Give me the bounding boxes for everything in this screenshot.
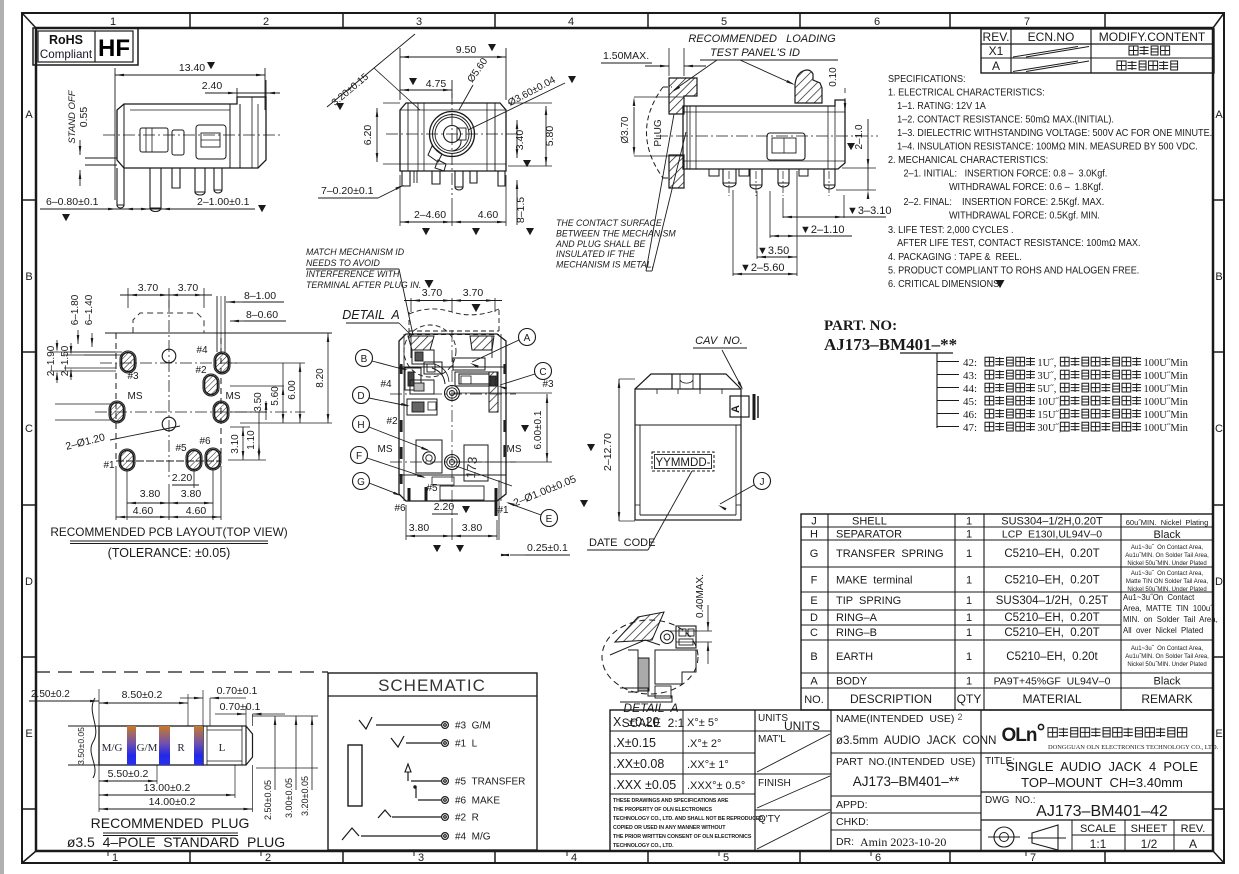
plug captions — [67, 815, 285, 850]
svg-text:Compliant: Compliant — [40, 48, 93, 61]
svg-text:B: B — [25, 271, 32, 283]
svg-text:3.80: 3.80 — [462, 522, 483, 534]
svg-text:Ø3.60±0.04: Ø3.60±0.04 — [506, 74, 558, 108]
loading view pins — [709, 169, 835, 196]
svg-text:RoHS: RoHS — [49, 33, 83, 47]
svg-text:COPIED OR USED IN ANY MANNER W: COPIED OR USED IN ANY MANNER WITHOUT — [613, 825, 726, 831]
svg-text:1–3. DIELECTRIC WITHSTANDING V: 1–3. DIELECTRIC WITHSTANDING VOLTAGE: 50… — [897, 128, 1212, 140]
svg-text:1: 1 — [966, 548, 972, 560]
bom materials — [994, 516, 1111, 707]
svg-text:H: H — [810, 529, 818, 541]
svg-text:44:: 44: — [963, 383, 977, 395]
svg-text:G/M: G/M — [137, 742, 158, 754]
pad #4 — [214, 352, 230, 374]
svg-text:0.55: 0.55 — [78, 107, 90, 128]
svg-text:SCALE: SCALE — [1080, 823, 1116, 835]
zone numbers bottom — [108, 851, 1036, 864]
svg-text:1/2: 1/2 — [1141, 837, 1158, 851]
svg-text:SUS304–1/2H,0.20T: SUS304–1/2H,0.20T — [1001, 516, 1103, 528]
part number heading — [824, 318, 957, 354]
dims 3-3.10 / 2-1.10 / 3.50 / 2-5.60 — [733, 171, 892, 276]
svg-text:6: 6 — [875, 852, 881, 864]
svg-text:3: 3 — [416, 16, 422, 28]
svg-text:2–1. INITIAL: INSERTION FORC: 2–1. INITIAL: INSERTION FORCE: 0.8 – 3.0… — [903, 168, 1107, 180]
view: front elevation (top-middle) — [400, 44, 506, 100]
test panel hatched section lower — [669, 155, 684, 188]
svg-text:X°± 5°: X°± 5° — [687, 717, 718, 729]
svg-text:A: A — [1189, 837, 1197, 851]
svg-text:#3: #3 — [127, 371, 139, 382]
svg-text:43:: 43: — [963, 370, 977, 382]
svg-text:FINISH: FINISH — [758, 778, 791, 789]
pcb dims 3.10 1.10 — [228, 412, 266, 460]
plug body — [68, 698, 253, 778]
plating option rows — [963, 357, 1189, 434]
svg-text:3.50: 3.50 — [253, 392, 264, 412]
svg-text:.XX±0.08: .XX±0.08 — [613, 757, 664, 771]
svg-text:#3 G/M: #3 G/M — [455, 721, 491, 732]
svg-text:#6: #6 — [394, 503, 406, 514]
pcb bottom dims — [116, 466, 221, 520]
name / part no / appd fields — [831, 712, 996, 849]
part number option branch lines — [937, 353, 959, 428]
svg-text:Ø3.70: Ø3.70 — [620, 116, 631, 144]
svg-text:WITHDRAWAL FORCE: 0.5Kgf. MIN.: WITHDRAWAL FORCE: 0.5Kgf. MIN. — [949, 210, 1100, 222]
svg-text:.X±0.15: .X±0.15 — [613, 736, 656, 750]
svg-text:Ø5.60: Ø5.60 — [466, 56, 491, 85]
svg-text:173: 173 — [463, 456, 480, 479]
svg-text:QTY: QTY — [957, 692, 982, 706]
svg-text:5: 5 — [723, 852, 729, 864]
svg-text:3.20±0.15: 3.20±0.15 — [330, 71, 371, 108]
svg-text:Area, MATTE TIN 100u˝: Area, MATTE TIN 100u˝ — [1123, 604, 1214, 613]
svg-text:6.00±0.1: 6.00±0.1 — [533, 410, 544, 449]
svg-text:1: 1 — [966, 651, 972, 663]
svg-text:AFTER LIFE TEST, CONTACT RESIS: AFTER LIFE TEST, CONTACT RESISTANCE: 100… — [897, 238, 1140, 250]
callout circle D — [353, 387, 411, 407]
svg-text:F: F — [356, 451, 362, 462]
svg-text:1–1. RATING: 12V 1A: 1–1. RATING: 12V 1A — [897, 101, 986, 113]
svg-text:C5210–EH, 0.20T: C5210–EH, 0.20T — [1004, 548, 1099, 560]
svg-text:Au1u˝MIN. On Solder Tail Area,: Au1u˝MIN. On Solder Tail Area, — [1125, 654, 1209, 660]
svg-text:DETAIL A: DETAIL A — [623, 701, 678, 715]
svg-text:A: A — [25, 109, 33, 121]
label CAV NO. — [693, 335, 747, 390]
svg-text:6–0.80±0.1: 6–0.80±0.1 — [46, 196, 99, 208]
svg-text:LCP E130I,UL94V–0: LCP E130I,UL94V–0 — [1002, 529, 1102, 541]
test panel hatched section upper — [669, 78, 697, 114]
svg-text:1:1: 1:1 — [1090, 837, 1107, 851]
svg-text:#2 R: #2 R — [455, 813, 479, 824]
svg-text:TRANSFER SPRING: TRANSFER SPRING — [836, 548, 944, 560]
detail A 2:1 contents — [610, 612, 696, 702]
dim dia3.70 plug — [620, 97, 684, 156]
svg-text:1: 1 — [966, 516, 972, 528]
dim 3.70 3.70 pcb — [120, 282, 212, 308]
svg-text:2–Ø1.00±0.05: 2–Ø1.00±0.05 — [512, 473, 578, 509]
svg-text:X. ±0.20: X. ±0.20 — [613, 715, 660, 729]
svg-text:RECOMMENDED PLUG: RECOMMENDED PLUG — [91, 815, 250, 831]
svg-text:THE PROPERTY OF OLN ELECTRONIC: THE PROPERTY OF OLN ELECTRONICS — [613, 807, 712, 813]
svg-text:#4 M/G: #4 M/G — [455, 832, 491, 843]
svg-text:0.70±0.1: 0.70±0.1 — [220, 701, 261, 713]
svg-text:3.20±0.05: 3.20±0.05 — [300, 776, 310, 816]
svg-text:MATERIAL: MATERIAL — [1022, 692, 1081, 706]
svg-text:1: 1 — [966, 676, 972, 688]
svg-text:G: G — [357, 477, 365, 488]
test panel hatched piece right — [795, 70, 822, 103]
zone letters right — [1215, 109, 1223, 740]
dim dia3.60 leader — [468, 74, 576, 130]
dim 6.20 — [362, 103, 400, 164]
svg-text:5. PRODUCT COMPLIANT TO ROHS A: 5. PRODUCT COMPLIANT TO ROHS AND HALOGEN… — [888, 265, 1139, 277]
svg-text:#5 TRANSFER: #5 TRANSFER — [455, 777, 525, 788]
svg-text:2.50±0.2: 2.50±0.2 — [31, 689, 70, 700]
svg-text:D: D — [810, 612, 818, 624]
svg-text:SPECIFICATIONS:: SPECIFICATIONS: — [888, 74, 966, 86]
dim 6-0.80 and 2-1.00 — [40, 196, 266, 221]
bottom view center circles — [445, 386, 460, 470]
svg-text:RING–A: RING–A — [836, 612, 878, 624]
svg-text:7–0.20±0.1: 7–0.20±0.1 — [321, 185, 374, 197]
svg-text:4: 4 — [568, 16, 574, 28]
svg-text:MAKE terminal: MAKE terminal — [836, 575, 912, 587]
svg-text:4.60: 4.60 — [133, 505, 154, 517]
svg-text:1: 1 — [110, 16, 116, 28]
svg-text:NEEDS TO AVOID: NEEDS TO AVOID — [306, 258, 380, 268]
svg-text:3.70: 3.70 — [138, 282, 159, 294]
svg-text:1: 1 — [966, 575, 972, 587]
svg-text:MODIFY.CONTENT: MODIFY.CONTENT — [1099, 30, 1206, 44]
switch contact #4 — [342, 828, 359, 840]
svg-text:45:: 45: — [963, 396, 977, 408]
svg-text:#4: #4 — [196, 345, 208, 356]
svg-text:J: J — [811, 516, 817, 528]
svg-text:NAME(INTENDED USE): NAME(INTENDED USE) — [836, 713, 954, 725]
callout circle J — [718, 473, 771, 511]
svg-text:2–12.70: 2–12.70 — [602, 433, 614, 471]
dim 2-1.0 — [836, 119, 876, 199]
svg-text:6–1.40: 6–1.40 — [84, 294, 95, 325]
svg-text:8.20: 8.20 — [315, 368, 326, 388]
svg-text:▼2–1.10: ▼2–1.10 — [800, 224, 845, 236]
svg-text:Au1~3u˝On Contact: Au1~3u˝On Contact — [1123, 593, 1195, 602]
title block outer — [610, 710, 1213, 851]
property note small print — [613, 798, 765, 849]
svg-text:7: 7 — [1024, 16, 1030, 28]
svg-text:▼3.50: ▼3.50 — [757, 245, 789, 257]
company logo cell — [981, 710, 1044, 851]
svg-text:6.20: 6.20 — [362, 125, 374, 146]
svg-text:2: 2 — [265, 852, 271, 864]
svg-text:HF: HF — [98, 35, 130, 62]
svg-text:TOP–MOUNT CH=3.40mm: TOP–MOUNT CH=3.40mm — [1021, 775, 1183, 790]
svg-text:A: A — [524, 333, 531, 344]
svg-text:TERMINAL AFTER PLUG IN.: TERMINAL AFTER PLUG IN. — [306, 280, 421, 290]
switch contact #2 — [378, 810, 391, 818]
schematic box — [328, 673, 537, 850]
pad MS right — [213, 401, 229, 423]
svg-text:5.80: 5.80 — [544, 126, 556, 147]
svg-text:3: 3 — [418, 852, 424, 864]
svg-text:MS: MS — [128, 391, 143, 402]
svg-text:E: E — [546, 514, 553, 525]
svg-text:G: G — [810, 548, 819, 560]
svg-text:1: 1 — [966, 595, 972, 607]
dim dia5.60 leader — [459, 56, 491, 110]
svg-text:1: 1 — [966, 529, 972, 541]
pad #2 — [203, 374, 219, 396]
svg-text:TECHNOLOGY CO., LTD.: TECHNOLOGY CO., LTD. — [613, 843, 674, 849]
svg-text:3.00±0.05: 3.00±0.05 — [284, 778, 294, 818]
dwg no field — [981, 792, 1213, 820]
front view centerlines — [386, 133, 520, 135]
svg-text:3.80: 3.80 — [181, 488, 202, 500]
svg-text:DONGGUAN OLN ELECTRONICS TECHN: DONGGUAN OLN ELECTRONICS TECHNOLOGY CO.,… — [1048, 744, 1219, 751]
svg-text:0.25±0.1: 0.25±0.1 — [527, 542, 568, 554]
plug dashed outline — [647, 87, 673, 178]
switch contact #6 — [414, 786, 416, 798]
side view body outline — [85, 97, 280, 212]
svg-text:AND PLUG SHALL BE: AND PLUG SHALL BE — [555, 239, 645, 249]
terminal #4 M/G — [361, 832, 491, 843]
svg-text:C5210–EH, 0.20t: C5210–EH, 0.20t — [1006, 651, 1098, 663]
svg-text:C: C — [539, 367, 546, 378]
svg-text:D: D — [357, 391, 364, 402]
plug dim 8.50 — [99, 689, 188, 726]
svg-text:#1 L: #1 L — [455, 739, 478, 750]
units matl finish qty column — [755, 710, 831, 851]
switch contact #3 — [359, 717, 372, 729]
svg-text:C5210–EH, 0.20T: C5210–EH, 0.20T — [1004, 627, 1099, 639]
switch contact #5 — [405, 764, 411, 781]
svg-text:SHELL: SHELL — [852, 516, 887, 528]
svg-text:100U˝Min: 100U˝Min — [1144, 410, 1189, 421]
svg-text:MIN. on Solder Tail Area,: MIN. on Solder Tail Area, — [1123, 615, 1218, 624]
svg-text:THE PRIOR WRITTEN CONSENT OF O: THE PRIOR WRITTEN CONSENT OF OLN ELECTRO… — [613, 834, 752, 840]
svg-text:R: R — [177, 742, 185, 754]
svg-text:46:: 46: — [963, 409, 977, 421]
svg-text:#1: #1 — [103, 460, 115, 471]
label STAND OFF 0.55 — [67, 89, 90, 186]
svg-text:APPD:: APPD: — [836, 799, 868, 811]
rev text CJK row X1 — [1129, 46, 1170, 55]
plug segment labels — [102, 742, 226, 754]
svg-text:INTERFERENCE WITH: INTERFERENCE WITH — [306, 269, 400, 279]
loading view jack body — [656, 100, 878, 169]
svg-text:1: 1 — [112, 852, 118, 864]
svg-text:EARTH: EARTH — [836, 651, 873, 663]
title field — [981, 753, 1213, 790]
svg-text:E: E — [810, 595, 817, 607]
svg-text:M/G: M/G — [102, 742, 123, 754]
svg-text:100U˝Min: 100U˝Min — [1144, 384, 1189, 395]
svg-text:.XX°± 1°: .XX°± 1° — [687, 759, 729, 771]
callout circle E — [506, 502, 558, 527]
svg-text:CHKD:: CHKD: — [836, 816, 869, 828]
dim 3.20 diagonal leader — [327, 34, 420, 118]
svg-text:ø3.5 4–POLE STANDARD PLUG: ø3.5 4–POLE STANDARD PLUG — [67, 834, 285, 850]
bottom view bottom dims — [406, 501, 570, 556]
svg-text:3.40: 3.40 — [514, 130, 526, 151]
svg-text:13.40: 13.40 — [179, 62, 205, 74]
svg-text:2–1.0: 2–1.0 — [854, 124, 865, 149]
svg-text:REV.: REV. — [1181, 823, 1206, 835]
callout circle H — [353, 416, 431, 452]
dim 2-12.70 — [587, 379, 635, 521]
svg-text:8–0.60: 8–0.60 — [246, 309, 278, 321]
pcb centerlines — [95, 300, 305, 480]
scale sheet rev cells — [1072, 820, 1213, 851]
cav A marker — [730, 394, 758, 420]
svg-text:2.40: 2.40 — [202, 80, 223, 92]
plug area dashed separator — [36, 671, 328, 673]
svg-text:.XXX°± 0.5°: .XXX°± 0.5° — [687, 780, 745, 792]
svg-text:2: 2 — [957, 712, 962, 722]
svg-text:#6 MAKE: #6 MAKE — [455, 796, 500, 807]
svg-text:BETWEEN THE MECHANISM: BETWEEN THE MECHANISM — [556, 228, 676, 238]
svg-text:PART NO.(INTENDED USE): PART NO.(INTENDED USE) — [836, 756, 975, 768]
note: match mechanism id — [306, 247, 421, 335]
svg-text:4.60: 4.60 — [478, 209, 499, 221]
svg-text:13.00±0.2: 13.00±0.2 — [144, 782, 191, 794]
svg-text:RING–B: RING–B — [836, 627, 877, 639]
svg-text:3.80: 3.80 — [140, 488, 161, 500]
svg-text:3U˝,: 3U˝, — [1037, 371, 1056, 382]
terminal #1 L — [406, 739, 478, 750]
svg-text:WITHDRAWAL FORCE: 0.6 – 1.8Kg: WITHDRAWAL FORCE: 0.6 – 1.8Kgf. — [949, 182, 1104, 194]
pcb housing dashed outline — [116, 313, 221, 461]
bottom view centerlines — [390, 330, 516, 515]
svg-text:A: A — [730, 405, 742, 413]
bottom view corner pins — [400, 364, 506, 540]
svg-text:▼2–5.60: ▼2–5.60 — [740, 262, 785, 274]
detail source dashed circle — [404, 325, 456, 377]
front view legs — [402, 171, 505, 190]
svg-text:3.70: 3.70 — [463, 287, 484, 299]
svg-text:X1: X1 — [989, 44, 1004, 58]
svg-text:1. ELECTRICAL CHARACTERISTICS:: 1. ELECTRICAL CHARACTERISTICS: — [888, 87, 1045, 99]
svg-text:ECN.NO: ECN.NO — [1028, 30, 1075, 44]
svg-text:Au1~3u˝ On Contact Area,: Au1~3u˝ On Contact Area, — [1131, 545, 1204, 551]
svg-text:5.50±0.2: 5.50±0.2 — [108, 768, 149, 780]
svg-text:Q'TY: Q'TY — [758, 814, 781, 825]
svg-text:100U˝Min: 100U˝Min — [1144, 423, 1189, 434]
svg-text:H: H — [357, 420, 364, 431]
svg-text:Au1u˝MIN. On Solder Tail Area,: Au1u˝MIN. On Solder Tail Area, — [1125, 553, 1209, 559]
svg-text:Nickel 50u˝MIN. Under Plated: Nickel 50u˝MIN. Under Plated — [1127, 561, 1206, 567]
plug dim 14.00 — [99, 765, 253, 812]
dim 8-1.00 / 8-0.60 — [217, 290, 286, 352]
dim 3.40 and 5.80 — [508, 103, 556, 167]
svg-text:THESE DRAWINGS AND SPECIFICATI: THESE DRAWINGS AND SPECIFICATIONS ARE — [613, 798, 729, 804]
callout circle A — [470, 329, 536, 369]
plug bar in schematic — [348, 745, 362, 806]
svg-text:1: 1 — [966, 612, 972, 624]
svg-text:4: 4 — [571, 852, 577, 864]
pad #3 — [120, 351, 136, 373]
svg-text:C: C — [25, 423, 33, 435]
view: side elevation (top-left) — [115, 62, 280, 200]
svg-text:5: 5 — [721, 16, 727, 28]
svg-text:#5: #5 — [175, 443, 187, 454]
bottom view dim 2-dia1.00 — [456, 466, 588, 509]
svg-text:3.80: 3.80 — [409, 522, 430, 534]
svg-text:4.60: 4.60 — [186, 505, 207, 517]
svg-text:RECOMMENDED LOADING: RECOMMENDED LOADING — [688, 33, 836, 45]
svg-text:AJ173–BM401–**: AJ173–BM401–** — [824, 335, 957, 354]
svg-text:6.00: 6.00 — [287, 380, 298, 400]
callout circle F — [351, 447, 427, 479]
plug dim 3.50 left — [76, 726, 91, 765]
svg-text:1–4. INSULATION RESISTANCE: 10: 1–4. INSULATION RESISTANCE: 100MΩ MIN. M… — [897, 141, 1198, 153]
svg-text:.X°± 2°: .X°± 2° — [687, 738, 721, 750]
svg-text:DR:: DR: — [836, 836, 854, 848]
svg-text:8–1.00: 8–1.00 — [244, 290, 276, 302]
svg-text:CAV NO.: CAV NO. — [695, 335, 743, 347]
svg-text:RECOMMENDED PCB LAYOUT(TOP VIE: RECOMMENDED PCB LAYOUT(TOP VIEW) — [50, 525, 287, 539]
svg-text:AJ173–BM401–42: AJ173–BM401–42 — [1036, 803, 1168, 820]
svg-text:1: 1 — [966, 627, 972, 639]
svg-text:C5210–EH, 0.20T: C5210–EH, 0.20T — [1004, 612, 1099, 624]
svg-text:1.50MAX.: 1.50MAX. — [603, 50, 649, 62]
svg-text:THE CONTACT SURFACE: THE CONTACT SURFACE — [556, 218, 662, 228]
svg-text:DWG NO.:: DWG NO.: — [985, 795, 1036, 806]
svg-text:#5: #5 — [426, 483, 438, 494]
svg-text:0.10: 0.10 — [828, 67, 839, 87]
bom descriptions — [836, 516, 944, 707]
bill of materials table — [801, 514, 1213, 710]
svg-text:#2: #2 — [386, 416, 398, 427]
pad #5 — [186, 449, 202, 471]
front view barrel circles — [428, 112, 475, 172]
svg-text:60u˝MIN. Nickel Plating: 60u˝MIN. Nickel Plating — [1126, 518, 1209, 527]
svg-text:6–1.80: 6–1.80 — [70, 294, 81, 325]
svg-text:#4: #4 — [380, 379, 392, 390]
plug insulator band 3 — [194, 726, 203, 765]
svg-text:B: B — [361, 354, 368, 365]
svg-text:2.20: 2.20 — [434, 501, 455, 513]
svg-text:E: E — [25, 728, 32, 740]
svg-text:▼3–3.10: ▼3–3.10 — [847, 205, 892, 217]
specifications text block — [888, 74, 1212, 291]
svg-text:L: L — [219, 742, 226, 754]
svg-text:Nickel 50u˝MIN. Under Plated: Nickel 50u˝MIN. Under Plated — [1127, 662, 1206, 668]
svg-text:2–Ø1.20: 2–Ø1.20 — [64, 431, 106, 452]
svg-text:INSULATED IF THE: INSULATED IF THE — [556, 249, 635, 259]
label DETAIL A (source) — [342, 308, 412, 336]
pcb layout top edge line — [105, 332, 332, 334]
svg-text:7: 7 — [1030, 852, 1036, 864]
terminal #6 MAKE — [418, 796, 500, 807]
svg-text:OLn: OLn — [1002, 725, 1037, 746]
svg-text:C: C — [810, 627, 818, 639]
dim 1.50MAX panel thickness — [601, 48, 706, 76]
bottom view dashed plug rectangle — [409, 309, 499, 335]
svg-text:3. LIFE TEST: 2,000 CYCLES .: 3. LIFE TEST: 2,000 CYCLES . — [888, 225, 1014, 237]
svg-text:MATCH MECHANISM ID: MATCH MECHANISM ID — [306, 247, 405, 257]
bom qty column — [957, 516, 982, 707]
callout circle C — [498, 363, 552, 390]
svg-text:C5210–EH, 0.20T: C5210–EH, 0.20T — [1004, 575, 1099, 587]
svg-text:BODY: BODY — [836, 676, 868, 688]
svg-text:D: D — [1215, 576, 1223, 588]
pad #1 — [119, 449, 135, 471]
RoHS Compliant HF logo box — [33, 28, 138, 65]
svg-text:YYMMDD-: YYMMDD- — [656, 457, 711, 469]
svg-text:B: B — [810, 651, 817, 663]
plug insulator band 2 — [159, 726, 170, 765]
